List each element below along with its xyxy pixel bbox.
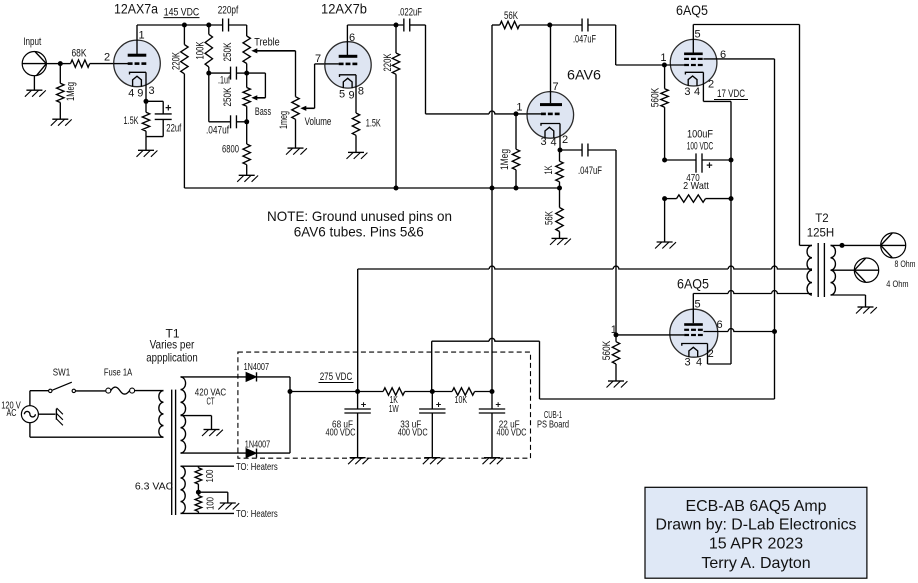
label 1K PS: [389, 394, 398, 406]
label appplication: [146, 351, 197, 365]
pin 4 label U4: [694, 86, 700, 98]
svg-text:5: 5: [339, 89, 345, 101]
pin 2 label U3: [562, 134, 568, 146]
svg-text:Treble: Treble: [254, 37, 279, 49]
svg-text:4: 4: [128, 88, 134, 100]
U4 cathode: [685, 72, 703, 74]
node bass bottom junction: [244, 119, 249, 124]
svg-text:Varies per: Varies per: [150, 338, 195, 352]
label 1Meg input: [65, 82, 77, 101]
svg-text:.047uF: .047uF: [573, 34, 596, 46]
node rail188-220Kb junction: [394, 186, 399, 191]
ground heater CT: [218, 503, 239, 510]
label 1Meg 6AV6: [499, 149, 511, 170]
transformer T1 heater secondary: [181, 466, 186, 513]
node bass top junction: [244, 71, 249, 76]
wire switch to fuse: [76, 390, 106, 392]
wire to 6AQ5a grid: [616, 25, 665, 65]
svg-text:1W: 1W: [389, 403, 399, 415]
pin 6 label U5: [716, 319, 722, 331]
triode U2 12AX7b envelope: [325, 42, 371, 88]
label 17 VDC: [714, 88, 748, 100]
pin 3 label U4: [684, 86, 690, 98]
pin 2 label U5: [708, 348, 714, 360]
svg-text:145 VDC: 145 VDC: [164, 7, 200, 19]
pin 9 label U2: [348, 90, 354, 102]
U4 screen grid: [684, 58, 703, 60]
label 12AX7a: [114, 1, 158, 17]
svg-text:1meg: 1meg: [278, 111, 290, 129]
ground under 470: [655, 242, 676, 249]
node 1Meg bottom junction: [514, 186, 519, 191]
label 22uf: [166, 122, 182, 134]
label 1K 6AV6: [543, 165, 555, 174]
svg-text:12AX7b: 12AX7b: [321, 1, 367, 17]
capacitor 22uF: [479, 392, 505, 458]
label 10K PS: [455, 394, 468, 406]
label 400 VDC 33uF: [398, 427, 428, 439]
node rail-220Kb junction: [394, 23, 399, 28]
U5 control grid: [684, 334, 703, 336]
U4 plate wire pin 5: [692, 25, 694, 53]
node 100K-.1uf junction: [206, 71, 211, 76]
svg-text:2: 2: [708, 78, 714, 90]
pin 2 label U4: [708, 78, 714, 90]
svg-text:1: 1: [138, 30, 144, 42]
svg-text:100: 100: [205, 497, 217, 510]
resistor 470 2W: [665, 195, 731, 202]
svg-text:1N4007: 1N4007: [245, 439, 271, 451]
svg-text:appplication: appplication: [146, 351, 197, 365]
svg-text:3: 3: [685, 356, 691, 368]
node cathode U1 junction: [144, 99, 149, 104]
label 1N4007 D1: [244, 361, 270, 373]
wire heater top: [181, 465, 235, 467]
svg-text:1Meg: 1Meg: [499, 149, 511, 170]
title box: [645, 487, 867, 578]
triode U3 6AV6 envelope: [527, 92, 574, 139]
ground under 6800: [237, 175, 258, 182]
title line 3: [709, 535, 803, 552]
wire B+ riser: [491, 25, 493, 392]
note text line 2: [294, 224, 424, 240]
transformer T1 primary: [159, 391, 164, 438]
T1 core: [172, 390, 176, 515]
wire U3 cathode pin 2: [559, 124, 561, 151]
node 22uF junction: [490, 389, 495, 394]
resistor 1K 6AV6: [556, 150, 563, 188]
svg-text:220pf: 220pf: [218, 5, 239, 17]
U1 cathode: [130, 72, 147, 74]
svg-text:1: 1: [660, 52, 666, 64]
svg-text:Input: Input: [23, 36, 41, 48]
svg-text:+: +: [165, 103, 171, 115]
U3 plate wire pin 7: [550, 25, 552, 103]
label 68K: [72, 48, 88, 60]
label 1N4007 D2: [245, 439, 271, 451]
resistor 6800: [243, 122, 250, 176]
pin 7 label U2: [315, 53, 321, 65]
svg-text:SW1: SW1: [53, 367, 71, 379]
note text line 1: [267, 208, 452, 224]
node heater CT junction: [196, 490, 201, 495]
U1 plate wire pin 1: [136, 25, 138, 54]
U1 cathode wire pin 3: [145, 72, 147, 101]
label 560K top: [649, 87, 661, 107]
label 8 Ohm: [895, 259, 916, 270]
svg-text:12AX7a: 12AX7a: [114, 1, 158, 17]
wire coupling to 6AV6 grid: [426, 25, 517, 114]
svg-text:125H: 125H: [807, 228, 835, 240]
svg-text:2: 2: [104, 52, 110, 64]
U5 heater: [689, 347, 698, 357]
U1 grid: [114, 62, 147, 65]
label 56K plate: [504, 10, 518, 22]
svg-text:1N4007: 1N4007: [244, 361, 270, 373]
pin 2 label 12AX7a: [104, 52, 110, 64]
svg-text:.047uF: .047uF: [578, 165, 602, 177]
label .047uf: [206, 125, 230, 137]
capacitor 100uF: [665, 153, 731, 172]
wire 1K to 10K: [405, 391, 452, 393]
potentiometer Bass 250K: [243, 73, 250, 122]
node 6AQ5a grid junction: [662, 63, 667, 68]
ground under J1: [25, 90, 46, 97]
svg-text:8 Ohm: 8 Ohm: [895, 259, 916, 270]
svg-text:4: 4: [694, 86, 700, 98]
title line 2: [656, 517, 857, 534]
pin 5 label U2: [339, 89, 345, 101]
resistor 10K: [452, 388, 475, 395]
svg-text:5: 5: [694, 29, 700, 41]
svg-text:8: 8: [358, 86, 364, 98]
Treble wiper arrow: [251, 48, 295, 53]
svg-text:6.3 VAC: 6.3 VAC: [135, 481, 174, 493]
svg-text:10K: 10K: [455, 394, 468, 406]
svg-text:560K: 560K: [601, 340, 613, 360]
svg-text:400 VDC: 400 VDC: [497, 427, 527, 439]
svg-text:1Meg: 1Meg: [65, 82, 77, 101]
svg-text:100: 100: [204, 469, 216, 482]
label 33 uF: [400, 418, 421, 430]
resistor 1.5K U1: [142, 101, 149, 136]
wire T2 center tap B+: [358, 266, 812, 391]
svg-text:1.5K: 1.5K: [366, 118, 381, 130]
svg-text:ECB-AB 6AQ5 Amp: ECB-AB 6AQ5 Amp: [686, 498, 827, 515]
label T1: [165, 327, 179, 341]
label SW1: [53, 367, 71, 379]
U3 plate: [540, 103, 562, 106]
wire source top: [30, 391, 49, 406]
pin 8 label U2: [358, 86, 364, 98]
resistor 56K cathode 6AV6: [556, 188, 563, 238]
svg-text:250K: 250K: [222, 42, 234, 61]
U2 grid: [325, 63, 357, 66]
node 470 left junction: [662, 196, 667, 201]
svg-text:1K: 1K: [543, 165, 555, 174]
pin 5 label U4: [694, 29, 700, 41]
label 6800: [222, 144, 239, 156]
node 560K-100uF junction: [662, 158, 667, 163]
label .047uF bottom: [578, 165, 602, 177]
wire .1uf junction down: [208, 73, 210, 122]
label + 100uF: [706, 160, 712, 172]
resistor 220K first stage: [181, 25, 188, 188]
svg-text:Bass: Bass: [255, 106, 272, 118]
label PS Board: [537, 419, 569, 431]
label 2 Watt: [683, 180, 709, 192]
wire heater CT to ground: [198, 492, 227, 503]
pin 3 label: [148, 85, 154, 97]
title line 4: [701, 555, 810, 572]
pin 1 label U5: [611, 324, 617, 336]
pin 1 label U3: [516, 101, 522, 113]
ground under 33uF: [423, 458, 444, 465]
wire 470 to ground: [664, 199, 666, 242]
svg-text:4: 4: [550, 137, 556, 149]
transformer T2 primary: [807, 245, 812, 295]
wire D1 to node B: [257, 377, 291, 392]
svg-text:220K: 220K: [171, 52, 183, 70]
label .047uF top: [573, 34, 596, 46]
svg-text:6800: 6800: [222, 144, 239, 156]
U3 cathode: [541, 124, 560, 126]
label 220K first: [171, 52, 183, 70]
wire J1 to node A: [46, 63, 60, 65]
pin 7 label U3: [552, 81, 558, 93]
U5 screen grid: [684, 329, 703, 331]
svg-text:5: 5: [694, 298, 700, 310]
node U3 cathode junction: [558, 148, 563, 153]
U5 cathode: [682, 344, 708, 346]
wire U4 cathode pin 2: [703, 72, 731, 364]
resistor 68K: [60, 60, 128, 67]
node 68uF junction: [355, 389, 360, 394]
svg-text:TO: Heaters: TO: Heaters: [236, 508, 278, 520]
capacitor 68uF: [344, 392, 370, 458]
svg-text:+: +: [436, 400, 442, 411]
label CUB-1: [544, 409, 562, 421]
wire HV center tap: [181, 416, 212, 430]
label 220pf: [218, 5, 239, 17]
wire PS rail: [290, 391, 383, 393]
svg-text:2: 2: [708, 348, 714, 360]
wire mains return: [30, 423, 164, 438]
label 560K bottom: [601, 340, 613, 360]
capacitor .047uf: [209, 115, 247, 128]
label 100 VDC: [687, 141, 714, 153]
label 100uF: [687, 129, 713, 141]
wire bass wiper link top: [247, 72, 266, 74]
svg-text:68K: 68K: [72, 48, 88, 60]
label + 33uF: [436, 400, 442, 411]
wire U4 screen pin 6: [703, 59, 774, 399]
svg-text:220K: 220K: [382, 53, 394, 71]
capacitor 220pf: [223, 19, 247, 32]
resistor 100K: [205, 25, 212, 73]
svg-text:9: 9: [348, 90, 354, 102]
svg-text:56K: 56K: [544, 211, 556, 225]
U4 plate: [684, 53, 703, 56]
node B rectifier junction: [288, 389, 293, 394]
AC source 120V: [21, 406, 38, 423]
resistor 1Meg 6AV6: [512, 114, 519, 188]
label Varies per: [150, 338, 195, 352]
transformer T1 HV secondary: [181, 377, 186, 453]
pentode U4 6AQ5 envelope: [670, 39, 717, 86]
svg-text:15 APR 2023: 15 APR 2023: [709, 535, 803, 552]
node 1K-56K junction: [557, 186, 562, 191]
capacitor .022uF: [404, 19, 426, 32]
label 1meg volume: [278, 111, 290, 129]
capacitor .1uf: [209, 67, 247, 80]
svg-text:+: +: [495, 400, 501, 411]
resistor 560K top: [661, 65, 668, 160]
label 275 VDC: [319, 371, 354, 383]
label 470: [686, 172, 700, 184]
wire U5 cathode pin 2: [708, 344, 732, 365]
resistor 1Meg input: [57, 64, 64, 120]
wire 10K to 22uF: [475, 391, 492, 393]
label Input: [23, 36, 41, 48]
node 470 right junction: [729, 196, 734, 201]
wire secondary bottom: [831, 295, 866, 307]
svg-text:56K: 56K: [504, 10, 518, 22]
label 6.3 VAC: [135, 481, 174, 493]
label Bass: [255, 106, 272, 118]
diode D1 1N4007: [246, 372, 257, 381]
pin 4 label: [128, 88, 134, 100]
label 100 upper: [204, 469, 216, 482]
wire U4 grid: [664, 64, 684, 66]
svg-text:.022uF: .022uF: [398, 7, 422, 19]
svg-text:.047uf: .047uf: [206, 125, 230, 137]
U2 heater: [343, 78, 352, 88]
pin 1 label: [138, 30, 144, 42]
label 145 VDC: [164, 7, 200, 19]
resistor 100 lower: [195, 492, 202, 513]
svg-text:400 VDC: 400 VDC: [398, 427, 428, 439]
Volume wiper arrow: [300, 106, 314, 111]
svg-text:6: 6: [716, 319, 722, 331]
U3 grid: [527, 113, 560, 116]
label 250K bass: [222, 87, 234, 106]
label 68 uF: [332, 418, 353, 430]
label 12AX7b: [321, 1, 367, 17]
label 400 VDC 68uF: [326, 427, 356, 439]
pin 3 label U3: [540, 136, 546, 148]
resistor 100 upper: [195, 466, 202, 492]
ground under 1.5K U2: [347, 152, 368, 159]
svg-text:+: +: [706, 160, 712, 172]
label 250K treble: [222, 42, 234, 61]
label + 22uF: [495, 400, 501, 411]
label 1.5K U1: [124, 115, 139, 127]
label 420 VAC: [195, 387, 227, 399]
label 6AQ5 top: [676, 2, 708, 18]
svg-text:100K: 100K: [195, 41, 207, 59]
resistor 1.5K U2: [352, 113, 359, 152]
wire treble wiper to volume: [295, 51, 297, 97]
U5 plate wire pin 5: [692, 294, 694, 324]
label Treble: [254, 37, 279, 49]
node 6AV6 plate junction: [547, 23, 552, 28]
label TO: Heaters top: [236, 461, 278, 473]
transformer T2 secondary: [831, 245, 836, 295]
ground secondary: [856, 307, 877, 314]
svg-text:100uF: 100uF: [687, 129, 713, 141]
wire grid into 6AV6: [516, 113, 540, 115]
node 6AV6 grid junction: [514, 111, 519, 116]
wire U2 cathode pin 8: [355, 75, 357, 113]
T2 core: [818, 243, 824, 297]
U2 plate: [339, 55, 358, 58]
svg-text:2: 2: [562, 134, 568, 146]
label 100 lower: [205, 497, 217, 510]
potentiometer Volume 1meg: [292, 97, 299, 148]
label 4 Ohm: [886, 279, 908, 290]
svg-text:PS Board: PS Board: [537, 419, 569, 431]
svg-text:2 Watt: 2 Watt: [683, 180, 709, 192]
wire bass wiper riser: [264, 73, 266, 98]
U3 heater: [545, 127, 554, 138]
svg-text:+: +: [361, 400, 367, 411]
label CT: [206, 396, 214, 408]
wire secondary 4ohm tap: [831, 269, 855, 271]
speaker jack 4 Ohm: [854, 258, 878, 282]
svg-text:.1uf: .1uf: [218, 75, 231, 87]
capacitor 33uF: [419, 392, 445, 458]
wire source to chassis: [38, 413, 55, 415]
pentode U5 6AQ5 envelope: [670, 309, 718, 357]
svg-text:275 VDC: 275 VDC: [320, 371, 353, 383]
label .022uF: [398, 7, 422, 19]
U1 plate: [128, 54, 147, 57]
svg-text:9: 9: [137, 88, 143, 100]
wire U4 plate to T2: [693, 25, 812, 246]
svg-text:7: 7: [315, 53, 321, 65]
ground HV center tap: [202, 430, 223, 437]
PS board dashed outline: [238, 352, 531, 458]
wire U1 cathode to ground: [145, 137, 147, 151]
node 33uF junction: [430, 389, 435, 394]
node secondary top junction: [840, 243, 845, 248]
pin 6 label U2: [349, 32, 355, 44]
wire J1 ground stem: [33, 76, 35, 90]
resistor 560K bottom: [612, 335, 619, 381]
U5 plate: [684, 323, 703, 326]
wire U5 grid: [616, 334, 684, 336]
svg-text:Fuse 1A: Fuse 1A: [104, 367, 132, 379]
svg-text:400 VDC: 400 VDC: [326, 427, 356, 439]
svg-text:TO: Heaters: TO: Heaters: [236, 461, 278, 473]
wire heater bottom: [181, 512, 235, 514]
pin 6 label U4: [720, 49, 726, 61]
wire HV secondary bottom: [181, 452, 247, 454]
wire to 6AQ5b grid: [615, 150, 617, 335]
triode U1 12AX7a envelope: [114, 40, 161, 87]
label 220K second: [382, 53, 394, 71]
pin 4 label U5: [696, 356, 702, 368]
label 6AQ5 bottom: [677, 276, 709, 292]
svg-text:560K: 560K: [649, 87, 661, 107]
wire B+ rail 188: [184, 187, 559, 189]
U1 heater: [133, 76, 142, 86]
svg-text:7: 7: [552, 81, 558, 93]
label 120 V: [1, 400, 21, 412]
speaker jack 8 Ohm: [881, 233, 906, 258]
label .1uf: [218, 75, 231, 87]
